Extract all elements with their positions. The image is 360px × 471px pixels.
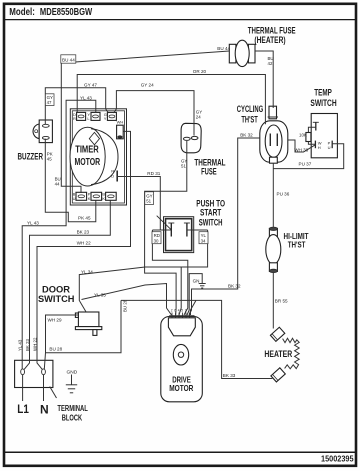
push to start switch bbox=[157, 198, 225, 252]
svg-text:BK 32: BK 32 bbox=[240, 133, 253, 138]
door switch bbox=[38, 284, 102, 335]
wire RD30 push-to-start to drive motor bbox=[152, 230, 188, 315]
wire WH38 cycling thermostat to temp switch bbox=[288, 140, 316, 152]
svg-text:TEMP: TEMP bbox=[314, 87, 332, 97]
wire GY47 buzzer to timer GY terminal bbox=[45, 83, 108, 125]
svg-text:L1: L1 bbox=[17, 402, 29, 416]
svg-text:TERMINAL: TERMINAL bbox=[57, 404, 88, 413]
wire BU42 thermal fuse heater to cycling thermostat bbox=[255, 51, 274, 108]
svg-text:WH 22: WH 22 bbox=[33, 337, 38, 351]
svg-text:MOTOR: MOTOR bbox=[75, 157, 101, 168]
svg-text:WH 29: WH 29 bbox=[48, 318, 62, 323]
svg-text:15002395: 15002395 bbox=[321, 455, 354, 464]
svg-text:45: 45 bbox=[47, 157, 52, 162]
svg-text:5: 5 bbox=[181, 309, 183, 313]
svg-text:K: K bbox=[88, 196, 91, 201]
footer rule bbox=[3, 451, 356, 453]
svg-text:SWITCH: SWITCH bbox=[38, 294, 75, 305]
svg-text:WH 22: WH 22 bbox=[77, 241, 91, 246]
wire YL35 door switch to drive motor bbox=[82, 284, 172, 316]
svg-text:34: 34 bbox=[201, 238, 206, 243]
title rule bbox=[3, 19, 356, 21]
timer box bbox=[70, 109, 126, 205]
wire GY51 thermal fuse to drive motor bbox=[145, 141, 188, 315]
wire BK32 cycling thermostat to drive motor bbox=[189, 133, 260, 315]
timer motor winding bbox=[70, 127, 118, 186]
temp switch bbox=[299, 87, 337, 158]
cycling thermostat bbox=[237, 104, 288, 163]
svg-text:BU 44: BU 44 bbox=[217, 46, 230, 51]
heater element bbox=[264, 327, 299, 382]
wire BK23 timer BK terminal to terminal block L1 bbox=[24, 201, 110, 370]
wire WH22 timer WH terminal to terminal block N bbox=[33, 131, 131, 369]
drive motor bbox=[161, 309, 203, 402]
svg-text:DRIVE: DRIVE bbox=[172, 375, 191, 384]
svg-text:PU 36: PU 36 bbox=[277, 191, 290, 196]
svg-text:R: R bbox=[73, 116, 76, 121]
svg-text:TH'ST: TH'ST bbox=[241, 115, 258, 125]
wire GN drive motor ground bbox=[187, 274, 202, 315]
svg-text:BK 23: BK 23 bbox=[25, 338, 30, 351]
svg-text:CYCLING: CYCLING bbox=[237, 104, 263, 114]
svg-text:K: K bbox=[102, 196, 105, 201]
svg-text:U: U bbox=[73, 196, 76, 201]
svg-text:51: 51 bbox=[181, 164, 186, 169]
svg-text:GN: GN bbox=[193, 279, 200, 284]
svg-text:PK 45: PK 45 bbox=[78, 216, 91, 221]
timer terminal BU bbox=[73, 191, 87, 200]
svg-text:PU 37: PU 37 bbox=[299, 161, 312, 166]
terminal block bbox=[15, 360, 88, 422]
svg-text:OR 20: OR 20 bbox=[193, 69, 207, 74]
svg-text:47: 47 bbox=[47, 100, 52, 105]
svg-text:BK 23: BK 23 bbox=[77, 230, 90, 235]
svg-text:42: 42 bbox=[268, 61, 273, 66]
ground symbol at drive motor bbox=[199, 284, 206, 289]
svg-text:YL 43: YL 43 bbox=[80, 96, 92, 101]
svg-text:BU 28: BU 28 bbox=[122, 299, 127, 312]
timer terminal BK bbox=[102, 191, 116, 200]
timer terminal DR bbox=[73, 112, 86, 121]
svg-text:10K: 10K bbox=[299, 133, 307, 138]
hi-limit thermostat bbox=[266, 227, 309, 272]
svg-text:BK 33: BK 33 bbox=[223, 373, 236, 378]
svg-text:H: H bbox=[318, 145, 321, 150]
svg-text:YL 35: YL 35 bbox=[94, 293, 106, 298]
svg-text:2: 2 bbox=[171, 309, 173, 313]
svg-text:U: U bbox=[328, 145, 331, 150]
svg-text:BU 44: BU 44 bbox=[62, 57, 75, 62]
svg-text:YL 43: YL 43 bbox=[17, 339, 22, 351]
svg-text:MDE8550BGW: MDE8550BGW bbox=[40, 7, 93, 18]
svg-text:THERMAL FUSE: THERMAL FUSE bbox=[248, 25, 296, 35]
svg-text:SWITCH: SWITCH bbox=[310, 98, 336, 108]
svg-text:BUZZER: BUZZER bbox=[18, 151, 44, 161]
svg-text:MOTOR: MOTOR bbox=[169, 384, 193, 393]
svg-text:SWITCH: SWITCH bbox=[199, 217, 223, 227]
ground GND at terminal block bbox=[66, 370, 78, 393]
svg-text:WH: WH bbox=[117, 120, 124, 125]
svg-text:Model:: Model: bbox=[9, 7, 35, 18]
svg-text:START: START bbox=[200, 208, 222, 218]
node push-to-start top wire RD30/YL34 bbox=[152, 229, 171, 231]
svg-text:30: 30 bbox=[154, 238, 159, 243]
svg-text:GY 24: GY 24 bbox=[141, 83, 154, 88]
wire PU37 temp switch to thermostat node bbox=[273, 144, 343, 169]
timer terminal GY bbox=[104, 112, 117, 121]
svg-text:24: 24 bbox=[196, 115, 201, 120]
wire PK45 buzzer to timer PK terminal bbox=[45, 139, 96, 222]
svg-text:BK 32: BK 32 bbox=[228, 284, 241, 289]
svg-text:BR 55: BR 55 bbox=[275, 299, 288, 304]
svg-text:N: N bbox=[40, 402, 49, 416]
svg-text:(HEATER): (HEATER) bbox=[254, 35, 285, 45]
timer terminal WH bbox=[117, 120, 124, 139]
wire BR55 hi-limit thermostat to heater bbox=[273, 273, 288, 329]
svg-text:HEATER: HEATER bbox=[264, 349, 292, 359]
wire OR20 timer DR terminal to cycling thermostat bbox=[77, 69, 265, 124]
wire PU36 cycling thermostat to hi-limit thermostat bbox=[273, 163, 289, 228]
timer terminal PK bbox=[88, 191, 102, 200]
svg-text:YL 34: YL 34 bbox=[81, 269, 93, 274]
svg-text:Y: Y bbox=[104, 116, 107, 121]
svg-text:GND: GND bbox=[67, 370, 78, 376]
svg-text:BU 28: BU 28 bbox=[49, 346, 62, 351]
thermal fuse heater component bbox=[229, 25, 295, 66]
thermal fuse center bbox=[181, 123, 226, 176]
svg-text:TH'ST: TH'ST bbox=[288, 239, 306, 249]
svg-text:BLOCK: BLOCK bbox=[62, 414, 82, 423]
timer terminal YL bbox=[87, 112, 100, 121]
buzzer bbox=[18, 120, 53, 161]
svg-text:GY 47: GY 47 bbox=[84, 83, 97, 88]
svg-text:WH 38: WH 38 bbox=[294, 147, 308, 152]
wire BK33 neutral line to heater and motor bbox=[121, 300, 272, 378]
wire BU28 terminal block N to heater circuit bbox=[44, 299, 127, 369]
svg-text:YL 43: YL 43 bbox=[27, 221, 39, 226]
svg-text:RD 31: RD 31 bbox=[147, 171, 160, 176]
svg-text:TIMER: TIMER bbox=[75, 144, 99, 155]
timer terminal RD bbox=[111, 169, 117, 182]
svg-text:44: 44 bbox=[55, 182, 60, 187]
svg-text:FUSE: FUSE bbox=[201, 166, 217, 176]
wire GY24 timer GY terminal to thermal fuse bbox=[114, 83, 203, 136]
svg-text:D: D bbox=[111, 173, 114, 178]
wire RD31 timer RD terminal to push-to-start switch bbox=[117, 171, 161, 230]
wire YL43 timer YL terminal to terminal block L1 bbox=[17, 96, 95, 370]
wire YL34 push-to-start to door switch and motor bbox=[79, 230, 208, 315]
wire WH29 door switch to neutral bbox=[46, 315, 79, 353]
svg-text:51: 51 bbox=[146, 199, 151, 204]
wire BU44 timer BU terminal to thermal fuse heater bbox=[55, 46, 231, 193]
